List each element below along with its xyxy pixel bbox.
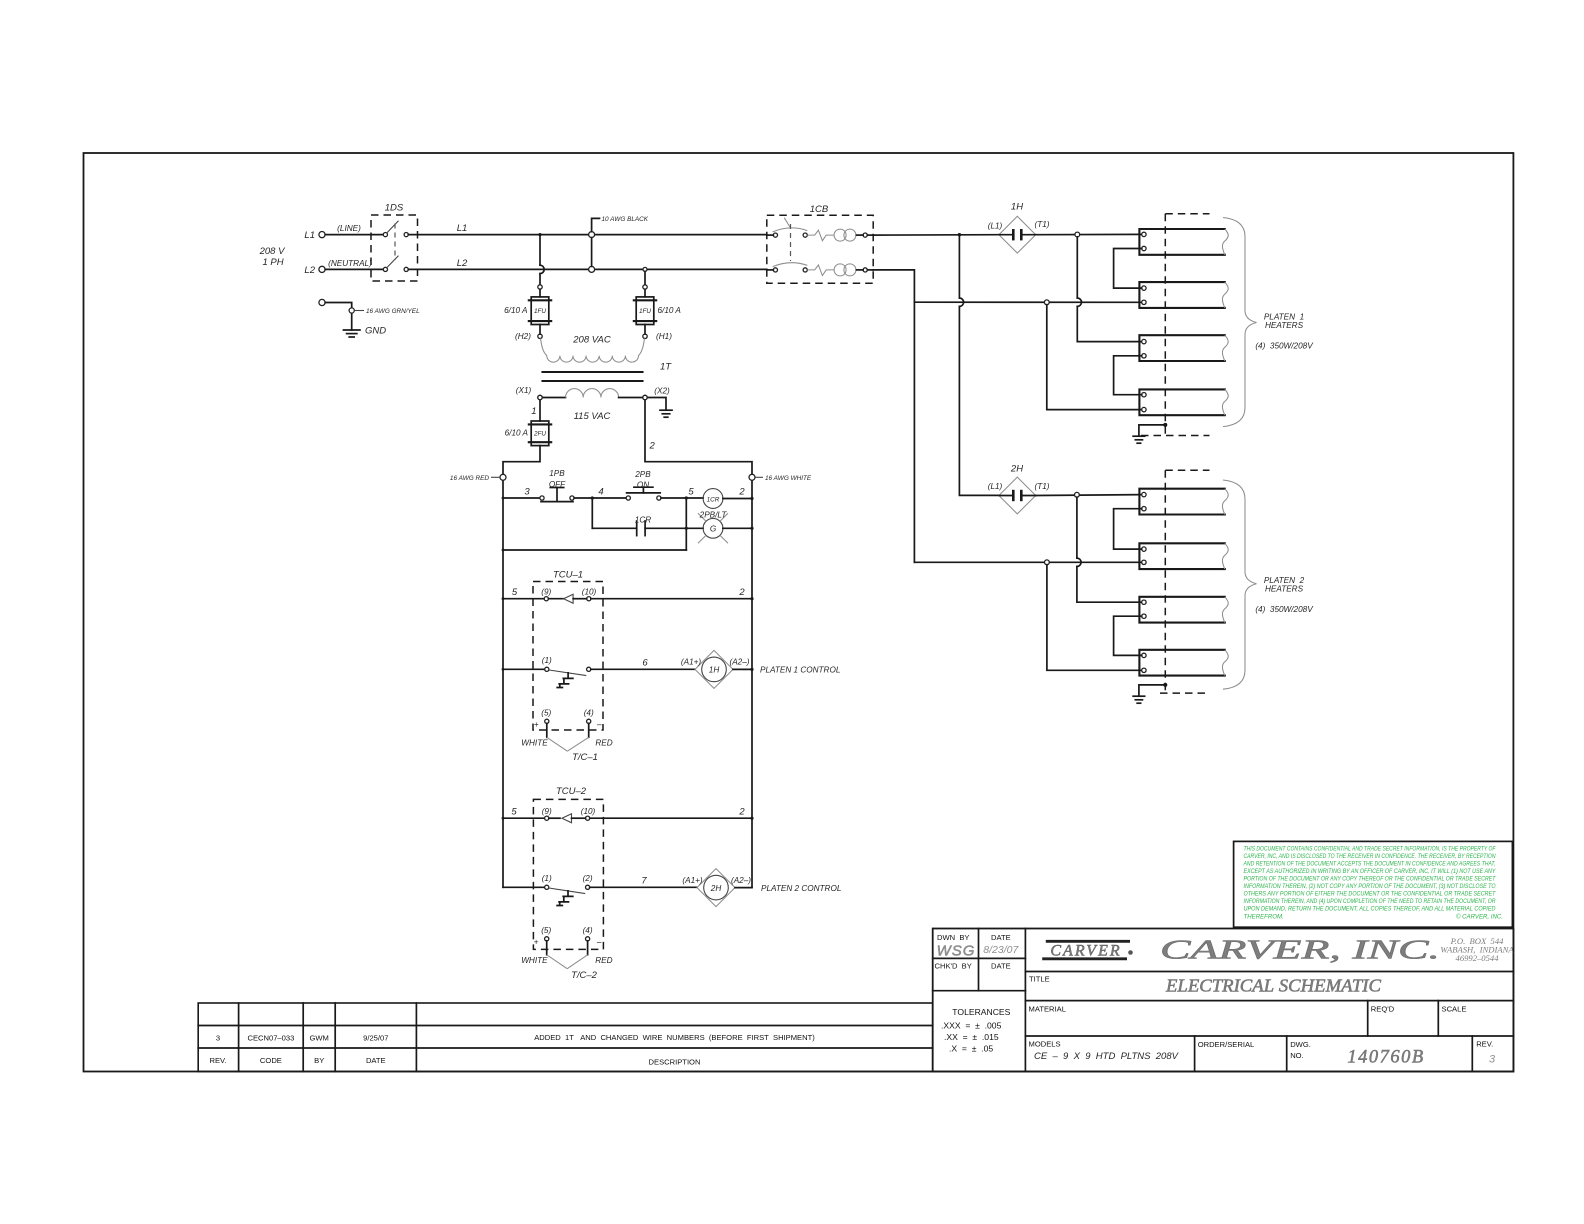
connector 16 AWG RED <box>450 474 506 482</box>
GND source terminal <box>319 299 325 305</box>
border frame <box>84 153 1514 1072</box>
svg-text:G: G <box>710 524 717 533</box>
svg-text:1FU: 1FU <box>534 308 546 315</box>
SSR 1H platen 1 control <box>681 650 750 688</box>
wire rung2 to right rail <box>723 527 752 529</box>
svg-text:5: 5 <box>512 587 518 598</box>
svg-text:1CR: 1CR <box>707 497 720 504</box>
junction X1 <box>538 395 542 399</box>
svg-text:OFF: OFF <box>549 480 566 489</box>
svg-text:UPON DEMAND, RETURN THE DOCUME: UPON DEMAND, RETURN THE DOCUMENT, ALL CO… <box>1244 906 1497 913</box>
svg-text:(L1): (L1) <box>988 482 1003 491</box>
svg-text:WHITE: WHITE <box>521 739 548 748</box>
heater platen 2 element 4 <box>1139 650 1228 676</box>
svg-text:115 VAC: 115 VAC <box>574 411 611 422</box>
wire rung2 to lamp <box>645 527 703 529</box>
pilot lamp 2PB/LT <box>698 511 728 544</box>
svg-text:208 V: 208 V <box>259 246 286 257</box>
junction L2 to right 1FU <box>643 267 647 271</box>
svg-text:.X = ± .05: .X = ± .05 <box>949 1044 993 1054</box>
svg-text:L1: L1 <box>304 230 315 241</box>
svg-text:CARVER: CARVER <box>1050 943 1121 960</box>
wire 1: X1 down to 2FU <box>539 400 541 421</box>
wire branch node 5 down <box>685 498 687 550</box>
svg-text:1DS: 1DS <box>385 203 404 214</box>
svg-text:2FU: 2FU <box>533 431 546 438</box>
svg-text:ORDER/SERIAL: ORDER/SERIAL <box>1198 1040 1255 1049</box>
svg-text:1FU: 1FU <box>639 308 651 315</box>
relay coil 1CR <box>703 489 723 509</box>
svg-text:+: + <box>534 938 539 947</box>
svg-text:208 VAC: 208 VAC <box>572 335 611 346</box>
junction L1 to left 1FU <box>538 233 541 236</box>
svg-text:1PB: 1PB <box>549 469 565 478</box>
svg-text:(H1): (H1) <box>656 332 672 341</box>
connector tap 10 AWG BLACK <box>589 216 649 272</box>
pushbutton 1PB OFF (NC) <box>540 469 574 502</box>
svg-text:TCU–2: TCU–2 <box>556 786 587 797</box>
svg-text:.XXX = ± .005: .XXX = ± .005 <box>941 1021 1002 1031</box>
svg-text:2: 2 <box>649 441 656 452</box>
wire platen2 bus vertical to heater 4 <box>1047 565 1142 671</box>
svg-text:TCU–1: TCU–1 <box>553 570 583 581</box>
wire platen2 T1 vertical to heater 3 <box>1076 497 1078 558</box>
wire rung6 from left rail <box>503 886 545 888</box>
TCU-2 output contact (9)-(10) with diode <box>542 807 596 823</box>
svg-text:16 AWG GRN/YEL: 16 AWG GRN/YEL <box>366 308 420 315</box>
svg-text:46992–0544: 46992–0544 <box>1456 953 1500 963</box>
svg-text:DATE: DATE <box>991 961 1011 970</box>
brace platen 2 <box>1223 480 1257 689</box>
junction platen1 bus <box>1044 300 1049 305</box>
svg-text:(1): (1) <box>542 874 552 883</box>
svg-text:5: 5 <box>511 807 517 818</box>
svg-text:REQ'D: REQ'D <box>1371 1005 1395 1014</box>
svg-text:1: 1 <box>531 406 536 417</box>
wire rung1 node 5 <box>661 497 703 499</box>
svg-text:(A2–): (A2–) <box>731 876 751 885</box>
wire rung5 node 5 <box>503 817 545 819</box>
wire link platen 2 h3-h4 <box>1114 616 1142 655</box>
svg-text:(LINE): (LINE) <box>337 224 361 233</box>
svg-text:DWN BY: DWN BY <box>937 933 970 942</box>
SSR 2H platen 2 control <box>682 869 751 907</box>
svg-text:6/10 A: 6/10 A <box>504 306 528 315</box>
SSR 1H platen 1 heater <box>988 202 1050 254</box>
svg-text:3: 3 <box>216 1034 220 1043</box>
svg-text:5: 5 <box>688 487 694 498</box>
svg-text:2PB: 2PB <box>634 470 651 479</box>
svg-text:(4) 350W/208V: (4) 350W/208V <box>1255 342 1314 351</box>
platen platen 2 boundary (dashed) <box>1160 470 1210 693</box>
svg-text:1H: 1H <box>1011 202 1023 213</box>
title block entries (gray engraved) <box>937 935 1515 1068</box>
svg-text:ELECTRICAL SCHEMATIC: ELECTRICAL SCHEMATIC <box>1165 976 1381 996</box>
svg-text:CARVER, INC, AND IS DISCLOSED: CARVER, INC, AND IS DISCLOSED TO THE REC… <box>1244 853 1496 860</box>
svg-text:6/10 A: 6/10 A <box>658 306 682 315</box>
wire rung1 node 3 <box>503 497 540 499</box>
svg-text:WSG: WSG <box>937 943 976 960</box>
svg-text:L2: L2 <box>457 258 468 269</box>
svg-text:THEREFROM.: THEREFROM. <box>1244 913 1284 920</box>
svg-text:INFORMATION THEREIN, AND (4) U: INFORMATION THEREIN, AND (4) UPON COMPLE… <box>1244 898 1497 905</box>
svg-text:DWG.: DWG. <box>1290 1040 1311 1049</box>
svg-text:T/C–1: T/C–1 <box>572 752 598 763</box>
label PLATEN&#160;&#160;1 <box>1255 313 1314 351</box>
svg-text:3: 3 <box>524 487 530 498</box>
svg-text:9/25/07: 9/25/07 <box>363 1034 388 1043</box>
confidential note (green) <box>1234 841 1513 927</box>
wire rung3 to right rail node 2 <box>591 598 752 600</box>
wire 1H to platen1 heater 1 <box>1036 233 1142 235</box>
svg-text:1CR: 1CR <box>635 516 651 525</box>
svg-text:(T1): (T1) <box>1034 220 1049 229</box>
svg-text:SCALE: SCALE <box>1442 1005 1467 1014</box>
wire platen2 L2 bus <box>914 561 1141 563</box>
svg-text:+: + <box>534 720 539 729</box>
svg-text:2: 2 <box>738 487 745 498</box>
svg-text:(10): (10) <box>582 588 597 597</box>
svg-text:MODELS: MODELS <box>1029 1039 1061 1048</box>
svg-text:2: 2 <box>738 807 745 818</box>
svg-text:(A1+): (A1+) <box>681 658 702 667</box>
svg-text:(10): (10) <box>581 807 596 816</box>
svg-text:6/10 A: 6/10 A <box>505 429 529 438</box>
svg-text:WHITE: WHITE <box>521 956 548 965</box>
svg-text:(X1): (X1) <box>516 386 532 395</box>
heater platen 2 element 2 <box>1139 543 1228 569</box>
junction X2 <box>643 395 647 399</box>
wire L2 source to 1DS <box>325 268 383 270</box>
wire rung2 <box>592 527 636 529</box>
wire 1H to right rail <box>733 668 752 670</box>
svg-text:1CB: 1CB <box>810 204 829 215</box>
svg-text:THIS DOCUMENT CONTAINS CONFIDE: THIS DOCUMENT CONTAINS CONFIDENTIAL AND … <box>1244 845 1497 852</box>
wire 7 to 2H control <box>590 886 697 888</box>
fuse 1FU left <box>504 285 551 325</box>
junction platen1 T1 <box>1075 232 1080 237</box>
wire L2 from 1DS to 1CB <box>408 268 767 270</box>
svg-text:REV.: REV. <box>1476 1039 1493 1048</box>
fuse 1FU right <box>634 285 682 325</box>
brace platen 1 <box>1223 218 1257 427</box>
ground platen 2 platen <box>1133 683 1167 703</box>
wire branch node 4 down <box>591 498 593 528</box>
svg-text:CHK'D BY: CHK'D BY <box>935 961 972 970</box>
svg-text:(L1): (L1) <box>988 222 1003 231</box>
SSR 2H platen 2 heater <box>988 464 1050 514</box>
wire GND <box>325 303 352 331</box>
svg-text:(1): (1) <box>542 656 552 665</box>
svg-text:MATERIAL: MATERIAL <box>1029 1005 1066 1014</box>
svg-text:(5): (5) <box>541 708 551 717</box>
heater platen 2 element 3 <box>1139 597 1228 623</box>
svg-text:CECN07–033: CECN07–033 <box>247 1034 294 1043</box>
TCU-2 control contact (1)-(2) <box>542 874 593 906</box>
svg-text:–: – <box>596 720 602 729</box>
svg-text:–: – <box>596 938 602 947</box>
svg-text:RED: RED <box>595 956 612 965</box>
svg-text:© CARVER, INC.: © CARVER, INC. <box>1456 913 1503 920</box>
wire link platen 2 h1-h2 <box>1114 509 1142 549</box>
thermocouple input T/C-1 <box>521 708 612 763</box>
svg-text:PLATEN 1 CONTROL: PLATEN 1 CONTROL <box>760 666 840 675</box>
svg-text:AND RETENTION OF THE DOCUMENT: AND RETENTION OF THE DOCUMENT ACCEPTS TH… <box>1243 860 1496 867</box>
svg-text:GWM: GWM <box>309 1034 328 1043</box>
svg-text:(X2): (X2) <box>654 387 670 396</box>
wire rung5 to right rail node 2 <box>590 817 752 819</box>
wire L2 breaker down to heater buses <box>873 270 914 562</box>
wire L1 source to 1DS <box>325 234 383 236</box>
svg-text:2H: 2H <box>1010 464 1023 475</box>
svg-text:TOLERANCES: TOLERANCES <box>952 1007 1010 1017</box>
wire platen1 bus vertical to heater 4 <box>1047 305 1142 410</box>
svg-text:2PB/LT: 2PB/LT <box>699 511 728 520</box>
wire rung4 from left rail <box>503 668 545 670</box>
wire rung3 node 5 <box>503 598 544 600</box>
svg-text:8/23/07: 8/23/07 <box>983 944 1019 956</box>
label 208V 1PH <box>259 246 286 268</box>
wire rung1 node 4 <box>574 497 626 499</box>
svg-text:PORTION OF THE DOCUMENT OR ANY: PORTION OF THE DOCUMENT OR ANY COPY THER… <box>1244 876 1497 883</box>
wire platen1 L2 bus <box>914 301 1141 303</box>
svg-text:HEATERS: HEATERS <box>1265 585 1304 594</box>
svg-text:(4) 350W/208V: (4) 350W/208V <box>1255 605 1314 614</box>
svg-text:RED: RED <box>595 739 612 748</box>
svg-text:DATE: DATE <box>366 1056 386 1065</box>
pushbutton 2PB ON (NO) <box>626 470 661 500</box>
revision table <box>198 1003 933 1072</box>
svg-text:(9): (9) <box>542 807 552 816</box>
wire 2H to platen2 heater 1 <box>1036 494 1142 497</box>
connector 16 AWG GRN/YEL <box>349 308 420 315</box>
svg-text:BY: BY <box>314 1056 324 1065</box>
label PLATEN&#160;&#160;2 <box>1255 576 1314 614</box>
wire rung1 to right rail node 2 <box>723 498 752 500</box>
wire 2: X2 down to right rail <box>645 398 752 888</box>
svg-text:.XX = ± .015: .XX = ± .015 <box>944 1032 999 1042</box>
svg-text:TITLE: TITLE <box>1029 975 1050 984</box>
svg-text:T/C–2: T/C–2 <box>571 970 598 981</box>
wire 2H feed vertical <box>958 235 960 298</box>
junction platen2 T1 <box>1075 492 1080 497</box>
title block <box>933 929 1514 1072</box>
circuit breaker 1CB <box>767 204 873 283</box>
ground at X2 <box>647 398 672 418</box>
temperature control unit TCU-1 <box>533 570 603 731</box>
svg-text:16 AWG WHITE: 16 AWG WHITE <box>765 475 812 482</box>
wire link platen 1 h1-h2 <box>1114 249 1142 289</box>
svg-text:GND: GND <box>365 326 386 337</box>
heater platen 1 element 1 <box>1139 229 1228 255</box>
node L2 source terminal <box>304 265 325 276</box>
thermocouple input T/C-2 <box>521 926 612 981</box>
svg-text:NO.: NO. <box>1290 1051 1304 1060</box>
svg-text:(A2–): (A2–) <box>729 658 749 667</box>
svg-text:INFORMATION THEREIN, (2) NOT C: INFORMATION THEREIN, (2) NOT COPY ANY PO… <box>1244 883 1496 890</box>
svg-text:(A1+): (A1+) <box>682 876 703 885</box>
TCU-1 control contact (1) <box>542 656 591 688</box>
transformer 1T secondary winding 115 VAC <box>538 389 647 400</box>
svg-text:3: 3 <box>1489 1054 1496 1066</box>
wire 6 to 1H control <box>591 668 695 670</box>
wire L1 down to left 1FU (hops L2) <box>539 235 541 266</box>
svg-text:(4): (4) <box>583 926 593 935</box>
platen platen 1 boundary (dashed) <box>1141 214 1210 436</box>
svg-text:6: 6 <box>642 657 648 668</box>
svg-text:2H: 2H <box>710 884 722 893</box>
svg-text:CODE: CODE <box>260 1056 282 1065</box>
heater platen 1 element 2 <box>1139 282 1228 308</box>
heater platen 1 element 3 <box>1139 335 1228 361</box>
wire from 2FU to left rail <box>503 446 540 888</box>
junction L1 feed for 2H <box>958 233 961 236</box>
wire L2 down to right 1FU <box>644 271 646 284</box>
svg-text:ADDED 1T AND CHANGED WIRE: ADDED 1T AND CHANGED WIRE NUMBERS (BEFOR… <box>534 1033 815 1042</box>
svg-text:16 AWG RED: 16 AWG RED <box>450 475 489 482</box>
svg-text:(H2): (H2) <box>515 332 531 341</box>
fuse 2FU <box>531 421 549 446</box>
heater platen 2 element 1 <box>1139 489 1228 515</box>
title block labels <box>935 933 1494 1060</box>
svg-text:REV.: REV. <box>209 1056 226 1065</box>
svg-text:L1: L1 <box>457 223 468 234</box>
svg-text:(4): (4) <box>584 708 594 717</box>
wire L1 from 1DS to 1CB <box>408 234 767 236</box>
transformer 1T core <box>543 372 643 381</box>
svg-text:(NEUTRAL): (NEUTRAL) <box>328 259 372 268</box>
wire platen1 T1 vertical to heater 3 <box>1076 237 1078 298</box>
ground GND <box>343 326 386 338</box>
svg-text:10 AWG BLACK: 10 AWG BLACK <box>602 216 649 223</box>
wire 2H to right rail <box>735 887 752 889</box>
ground platen 1 platen <box>1133 423 1167 443</box>
wire L1 breaker to 1H <box>873 234 999 236</box>
TCU-1 output contact (9)-(10) with diode <box>541 588 596 604</box>
svg-text:2: 2 <box>738 587 745 598</box>
svg-text:(9): (9) <box>541 588 551 597</box>
temperature control unit TCU-2 <box>533 786 603 949</box>
svg-text:DATE: DATE <box>991 933 1011 942</box>
svg-text:1 PH: 1 PH <box>262 257 283 268</box>
contact 1CR (NO) <box>635 516 651 536</box>
svg-text:(T1): (T1) <box>1034 482 1049 491</box>
connector 16 AWG WHITE <box>749 474 812 482</box>
svg-text:EXCEPT AS AUTHORIZED IN WRITIN: EXCEPT AS AUTHORIZED IN WRITING BY AN OF… <box>1244 868 1497 875</box>
svg-text:OTHERS ANY PORTION OF EITHER T: OTHERS ANY PORTION OF EITHER THE DOCUMEN… <box>1244 891 1497 898</box>
junction platen2 bus <box>1045 560 1050 565</box>
svg-text:7: 7 <box>641 875 647 886</box>
svg-text:(2): (2) <box>583 874 593 883</box>
svg-text:ON: ON <box>637 481 649 490</box>
svg-text:4: 4 <box>598 487 603 498</box>
svg-text:140760B: 140760B <box>1347 1048 1424 1068</box>
svg-text:1H: 1H <box>709 666 720 675</box>
svg-text:HEATERS: HEATERS <box>1265 321 1304 330</box>
svg-text:CE – 9 X 9 HTD PLTNS 20: CE – 9 X 9 HTD PLTNS 208V <box>1034 1051 1180 1062</box>
disconnect switch 1DS <box>371 203 418 282</box>
wire link platen 1 h3-h4 <box>1114 356 1142 395</box>
transformer 1T primary winding 208 VAC <box>538 324 647 362</box>
svg-text:DESCRIPTION: DESCRIPTION <box>649 1058 701 1067</box>
svg-text:L2: L2 <box>304 265 315 276</box>
heater platen 1 element 4 <box>1139 389 1228 415</box>
node L1 source terminal <box>304 230 325 241</box>
svg-text:CARVER, INC.: CARVER, INC. <box>1160 935 1440 965</box>
svg-text:PLATEN 2 CONTROL: PLATEN 2 CONTROL <box>761 884 841 893</box>
svg-text:(5): (5) <box>541 926 551 935</box>
svg-text:1T: 1T <box>660 362 672 373</box>
wire node 5 to left rail <box>503 549 686 551</box>
